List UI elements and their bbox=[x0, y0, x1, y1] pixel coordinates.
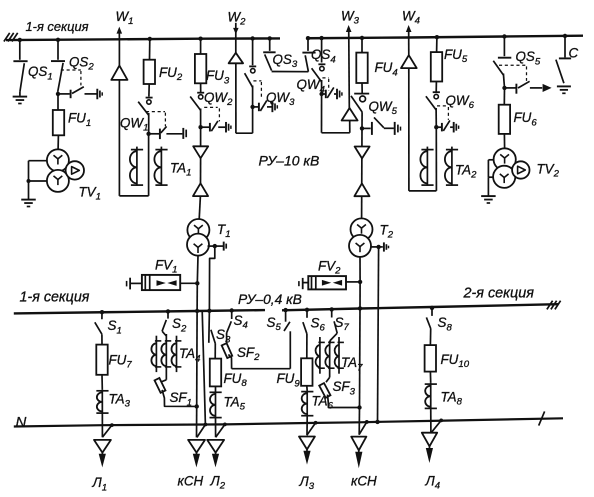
wire FU6 to TV2 bbox=[503, 134, 505, 148]
load switch QW3 bbox=[249, 65, 256, 67]
ground TV1 bbox=[21, 199, 36, 201]
N tap L4 bbox=[439, 418, 443, 422]
wire QW5 to T2 bbox=[361, 128, 363, 218]
node QS5 on bus bbox=[502, 34, 506, 38]
wire TA8 to L4 feeder bbox=[430, 409, 432, 433]
wire TA6 to L3 feeder bbox=[306, 416, 308, 435]
fuse FU10 bbox=[429, 345, 431, 372]
wire tie to S5 bbox=[289, 331, 291, 368]
disconnector QS2 bbox=[57, 40, 59, 60]
wire S7 to TA7 bbox=[330, 333, 338, 344]
wire FU9 to TA6 bbox=[306, 386, 308, 391]
switch S1 bbox=[101, 312, 103, 319]
dashed link QW2 bbox=[204, 106, 218, 108]
cable termination W2 bbox=[229, 53, 244, 64]
wire bus to N (kSN) bbox=[202, 311, 205, 425]
wire TV2 to ground bbox=[488, 159, 493, 161]
cable termination lower (to T1) bbox=[193, 183, 208, 196]
wire QW3 loop bottom bbox=[236, 132, 253, 134]
wire W1 loop left leg bbox=[118, 80, 120, 196]
node S1 on bus bbox=[100, 310, 104, 314]
switch S4 bbox=[231, 311, 233, 320]
node SF1 junction bbox=[195, 404, 199, 408]
current transformer TA3 bbox=[101, 389, 103, 413]
dashed link QW1 bbox=[146, 111, 165, 113]
wire T2 to kSN-2 bbox=[359, 308, 362, 407]
node QS4 on bus bbox=[306, 36, 310, 40]
node C on bus bbox=[563, 34, 567, 38]
bus N right-end tick bbox=[539, 411, 545, 425]
current transformer TA7 (three-phase) bbox=[329, 341, 331, 377]
wire QS2 to FU1 bbox=[57, 94, 59, 110]
earthing knife QS2 bbox=[56, 92, 60, 96]
earthing contact QW3 bbox=[250, 105, 254, 109]
transformer T1 bbox=[187, 219, 209, 241]
cable termination W4 bbox=[401, 55, 417, 68]
svg-text:РУ–10 кВ: РУ–10 кВ bbox=[259, 153, 320, 169]
load switch QW6 bbox=[433, 91, 440, 93]
switch C bbox=[564, 36, 566, 58]
fuse FU7 bbox=[101, 345, 103, 375]
current transformer TA2 (phase A) bbox=[426, 147, 428, 186]
svg-text:кСН: кСН bbox=[351, 473, 377, 488]
node FU4 on bus bbox=[360, 36, 364, 40]
node QS2 on bus bbox=[56, 38, 60, 42]
wire TA5 to L2 feeder bbox=[215, 418, 217, 437]
wire QS3 to QS4 bbox=[272, 71, 309, 73]
wire SF1 to kSN junction bbox=[162, 390, 197, 407]
dashed link QS5 bbox=[499, 64, 527, 66]
outgoing feeder kSN-2 bbox=[351, 437, 366, 451]
svg-text:РУ–0,4 кВ: РУ–0,4 кВ bbox=[238, 292, 302, 307]
line W1 arrow bbox=[118, 30, 120, 40]
wire tie line 0.4kV sections bbox=[232, 368, 291, 370]
svg-text:N: N bbox=[16, 414, 27, 431]
cable termination W1 bbox=[111, 66, 127, 80]
wire TA1 loop right leg bbox=[148, 134, 150, 196]
disconnector QS5 bbox=[503, 37, 505, 57]
svg-text:кСН: кСН bbox=[178, 473, 204, 488]
bus 0.4kV section 1 bbox=[14, 310, 265, 313]
switch S3 bbox=[208, 311, 211, 343]
N tap kSN-1 bbox=[204, 423, 208, 427]
wire W3 below bus bbox=[348, 38, 351, 120]
wire FU10 to TA8 bbox=[429, 372, 431, 383]
earthing contact QW6 bbox=[434, 125, 438, 129]
wire TA2 loop bottom bbox=[409, 190, 437, 192]
wire S6 to FU9 bbox=[306, 334, 308, 359]
node FU2 on bus bbox=[148, 37, 152, 41]
current transformer TA6 bbox=[306, 391, 308, 416]
wire W2 below bus bbox=[235, 39, 237, 63]
load switch QW2 bbox=[197, 92, 204, 94]
node FV2 junction bbox=[358, 280, 362, 284]
bus 10kV section 1 bbox=[6, 38, 280, 40]
node T2 on 0.4kV bus bbox=[358, 306, 362, 310]
wire T1 neutral down bbox=[209, 246, 214, 311]
dashed link QS2 bbox=[61, 69, 81, 71]
bus 0.4kV section 2 right-end hatch bbox=[547, 301, 553, 310]
wire QW3 loop right leg bbox=[252, 107, 254, 133]
current transformer TA2 (phase C) bbox=[451, 147, 453, 186]
N tap kSN-2 bbox=[365, 420, 369, 424]
switch S7 bbox=[331, 309, 333, 317]
N tap L2 bbox=[223, 422, 227, 426]
wire FU7 to TA3 bbox=[101, 375, 103, 389]
cable termination upper (to T2) bbox=[355, 147, 370, 159]
wire TV1 to ground bbox=[29, 160, 48, 162]
current transformer TA5 bbox=[215, 392, 217, 418]
wire W2 loop left leg bbox=[235, 63, 237, 133]
ground QS1 bbox=[13, 96, 28, 98]
line W2 arrow bbox=[235, 23, 237, 39]
line W3 arrow bbox=[348, 28, 350, 38]
node QS1 on bus bbox=[18, 38, 22, 42]
current transformer TA1 (phase C) bbox=[160, 147, 162, 186]
wire bus to FU3 bbox=[200, 39, 202, 54]
fuse FU5 bbox=[436, 52, 438, 81]
wire bus to QW4 bbox=[321, 38, 323, 62]
earthing knife QS5 bbox=[502, 86, 506, 90]
wire S4 to SF2 bbox=[226, 333, 228, 347]
arrester FV1 bbox=[126, 281, 128, 287]
wire S2 to TA4 bbox=[162, 331, 166, 336]
fuse FU6 bbox=[503, 105, 505, 134]
node T1 on 0.4kV bus bbox=[195, 309, 199, 313]
node QS3 on bus bbox=[268, 36, 272, 40]
cable termination W3 bbox=[342, 108, 358, 121]
wire TA1 loop bottom bbox=[119, 195, 148, 197]
wire SF2 to tie line bbox=[228, 354, 231, 368]
disconnector QS4 bbox=[307, 38, 309, 51]
wire bus to FU4 bbox=[361, 38, 363, 53]
wire FU4 to QW5 bbox=[361, 83, 363, 94]
earthing contact QW4 bbox=[319, 92, 323, 96]
node S6 on bus bbox=[305, 308, 309, 312]
svg-text:С: С bbox=[569, 46, 579, 61]
node FV1 junction bbox=[195, 281, 199, 285]
wire QW4 loop bottom bbox=[322, 132, 350, 134]
wire W4 loop left leg bbox=[408, 68, 410, 191]
cable termination upper (to T1) bbox=[193, 146, 208, 158]
breaker SF3 bbox=[326, 377, 330, 382]
outgoing feeder kSN-1 bbox=[188, 440, 205, 453]
current transformer TA1 (phase A) bbox=[136, 147, 138, 186]
earthing contact QW1 bbox=[146, 132, 150, 136]
svg-text:2-я секция: 2-я секция bbox=[463, 286, 535, 302]
wire bus to FU5 bbox=[436, 37, 438, 52]
current transformer TA4 (three-phase) bbox=[165, 334, 167, 380]
voltage transformer TV1 bbox=[47, 149, 69, 171]
node S3 on bus bbox=[207, 309, 211, 313]
fuse FU8 bbox=[215, 359, 217, 387]
wire S3 to FU8 bbox=[214, 344, 216, 359]
wire S8 to FU10 bbox=[429, 329, 431, 346]
switch S2 bbox=[167, 311, 169, 318]
node S4 on bus bbox=[230, 308, 234, 312]
wire QS5 to FU6 bbox=[503, 88, 505, 105]
cable termination lower (to T2) bbox=[354, 183, 369, 196]
neutral tap T1 bbox=[208, 245, 224, 247]
disconnector QS1 bbox=[19, 40, 21, 60]
outgoing feeder L3 bbox=[299, 437, 315, 450]
fuse FU3 bbox=[200, 54, 202, 83]
wire T1 to 0.4kV bus and kSN feeder bbox=[196, 256, 199, 284]
wire TA3 to L1 feeder bbox=[101, 413, 103, 437]
ground TV2 bbox=[481, 195, 496, 197]
earthing contact QW5 bbox=[360, 126, 364, 130]
wire SF3 to kSN-2 junction bbox=[328, 395, 360, 408]
wire QW4 loop right leg bbox=[349, 121, 351, 133]
wire FU5 to QW6 bbox=[435, 82, 437, 93]
N tap L3 bbox=[314, 421, 318, 425]
fuse FU2 bbox=[148, 60, 150, 84]
wire FU1 to TV1 bbox=[57, 135, 59, 149]
outgoing feeder L4 bbox=[422, 433, 437, 447]
wire FU3 to QW2 bbox=[200, 83, 202, 92]
wire W1 below bus bbox=[118, 39, 120, 79]
outgoing feeder L2 bbox=[207, 440, 224, 453]
switch S5 bbox=[284, 322, 290, 331]
switch S6 bbox=[306, 310, 308, 318]
earthing contact QW2 bbox=[198, 125, 202, 129]
load switch QW1 bbox=[146, 97, 153, 99]
wire S1 to FU7 bbox=[101, 334, 103, 344]
outgoing feeder L1 bbox=[94, 440, 111, 453]
load switch QW5 bbox=[354, 93, 369, 95]
bus N bbox=[14, 418, 563, 426]
node S8 on bus bbox=[430, 306, 434, 310]
neutral tap T2 bbox=[371, 246, 383, 248]
current transformer TA8 bbox=[430, 382, 432, 409]
fuse FU1 bbox=[58, 110, 60, 135]
bus 10kV section 2 bbox=[307, 36, 583, 39]
wire between terminations bbox=[200, 158, 202, 183]
disconnector QS3 bbox=[269, 38, 271, 51]
ground C bbox=[557, 85, 571, 87]
switch S8 bbox=[431, 308, 433, 316]
wire QW6 loop right leg bbox=[435, 127, 437, 191]
node QW4 on bus bbox=[319, 36, 323, 40]
dashed link QW4 bbox=[322, 77, 328, 79]
wire bus to FU2 bbox=[149, 39, 151, 60]
node SF3 junction bbox=[357, 405, 361, 409]
svg-text:1-я секция: 1-я секция bbox=[20, 289, 90, 305]
breaker SF1 bbox=[161, 380, 166, 382]
wire QW2 to cable terminations bbox=[200, 127, 202, 146]
bus 0.4kV section 2 bbox=[282, 304, 558, 310]
transformer T2 bbox=[351, 218, 373, 240]
line W4 arrow bbox=[408, 38, 410, 56]
wire FU8 to TA5 bbox=[215, 386, 217, 392]
wire T2 to 0.4kV bus bbox=[359, 257, 361, 282]
node S2 on bus bbox=[166, 309, 170, 313]
fuse FU9 bbox=[306, 358, 308, 386]
voltage transformer TV2 bbox=[494, 148, 516, 170]
wire bus to QW3 bbox=[252, 39, 254, 66]
node FU3 on bus bbox=[198, 37, 202, 41]
N tap L1 bbox=[110, 423, 114, 427]
svg-text:1-я секция: 1-я секция bbox=[26, 19, 89, 34]
fuse FU4 bbox=[361, 53, 363, 83]
node FU5 on bus bbox=[435, 35, 439, 39]
wire to T1 bbox=[199, 196, 200, 219]
node QW3 on bus bbox=[250, 36, 254, 40]
arrester FV2 bbox=[298, 281, 300, 286]
load switch QW4 bbox=[318, 63, 325, 65]
node S7 on bus bbox=[330, 307, 334, 311]
dashed link QW6 bbox=[437, 105, 448, 107]
dashed link QW3 bbox=[253, 80, 261, 82]
wire T2 neutral to N bbox=[378, 247, 379, 422]
wire kSN feeder bbox=[196, 311, 198, 406]
node S5 on bus bbox=[283, 308, 287, 312]
bus 10kV section 1 left-end hatch bbox=[4, 33, 10, 42]
breaker SF2 bbox=[222, 343, 233, 358]
wire FU2 to QW1 bbox=[148, 84, 150, 97]
